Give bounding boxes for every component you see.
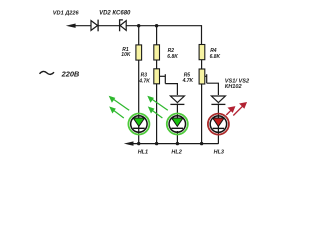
- svg-text:HL2: HL2: [171, 149, 181, 155]
- svg-text:HL3: HL3: [214, 149, 224, 155]
- svg-text:4.7K: 4.7K: [138, 78, 150, 84]
- svg-text:HL1: HL1: [138, 149, 148, 155]
- svg-text:220В: 220В: [61, 69, 80, 78]
- svg-text:VD1 Д226: VD1 Д226: [53, 11, 80, 17]
- svg-text:4.7K: 4.7K: [182, 78, 194, 84]
- svg-text:10K: 10K: [121, 52, 131, 58]
- svg-text:6.8K: 6.8K: [167, 54, 178, 60]
- svg-text:КН102: КН102: [225, 84, 243, 90]
- svg-text:6.8K: 6.8K: [210, 54, 221, 60]
- svg-text:VD2 КС680: VD2 КС680: [99, 11, 131, 17]
